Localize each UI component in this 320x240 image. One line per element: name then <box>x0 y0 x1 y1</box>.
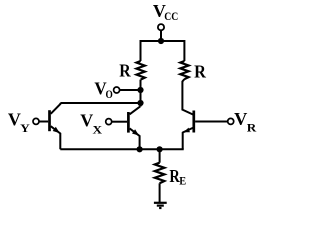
junction collectors node <box>137 100 143 106</box>
svg-text:R: R <box>194 61 207 81</box>
svg-text:Y: Y <box>20 121 30 135</box>
wire right resistor to Q3 collector <box>182 79 193 115</box>
junction Q2 emitter <box>137 146 143 152</box>
wire RE top lead <box>159 149 161 162</box>
wire VY base stub <box>39 121 48 123</box>
wire VCC terminal to rail <box>160 30 162 42</box>
ground <box>154 203 167 208</box>
transistor Q1 (VY input) <box>50 103 61 149</box>
svg-text:V: V <box>234 109 247 129</box>
junction VO node <box>137 87 143 93</box>
label RE <box>169 166 186 188</box>
svg-text:E: E <box>179 174 186 188</box>
VO terminal <box>114 87 120 93</box>
resistor R (right) <box>180 61 188 79</box>
svg-text:R: R <box>247 121 257 135</box>
resistor R (left) <box>137 61 145 80</box>
node VY label <box>8 109 30 135</box>
wire VR base stub <box>195 121 228 123</box>
VR terminal <box>228 118 234 124</box>
wire VX base stub <box>112 121 127 123</box>
wire top rail <box>141 41 185 61</box>
svg-text:V: V <box>80 111 93 131</box>
wire emitter bus <box>60 148 183 150</box>
svg-text:O: O <box>106 87 113 101</box>
VX terminal <box>106 119 112 125</box>
node VR label <box>234 109 256 135</box>
node VO label <box>94 79 112 102</box>
wire VO stub <box>117 89 141 91</box>
VCC terminal <box>158 24 164 30</box>
transistor Q2 (VX input) <box>128 106 140 149</box>
wire left resistor to collector node <box>140 80 142 107</box>
junction RE node <box>157 146 163 152</box>
wire RE bottom lead <box>159 183 161 202</box>
transistor Q3 (VR output, mirrored) <box>183 111 194 150</box>
node VCC label <box>153 1 178 23</box>
svg-text:R: R <box>119 61 131 81</box>
VY terminal <box>33 118 39 124</box>
wire collector bus Q1-Q2 <box>60 102 140 104</box>
svg-text:CC: CC <box>164 9 178 23</box>
node VX label <box>80 111 102 137</box>
svg-text:V: V <box>8 109 21 129</box>
svg-text:X: X <box>93 123 103 137</box>
resistor RE <box>155 163 165 184</box>
junction VCC rail <box>158 38 164 44</box>
